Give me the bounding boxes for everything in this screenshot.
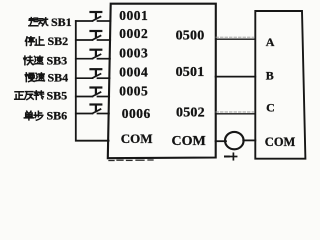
svg-text:0006: 0006	[122, 106, 151, 121]
label SB4 mansu	[25, 70, 68, 84]
svg-text:0500: 0500	[176, 29, 205, 44]
pushbutton SB2	[76, 31, 110, 40]
power supply polarity - +	[225, 153, 237, 159]
PLC box U1	[108, 4, 216, 159]
svg-text:0501: 0501	[176, 65, 205, 80]
svg-text:A: A	[266, 35, 275, 49]
svg-text:SB6: SB6	[47, 109, 68, 123]
load box terminal labels	[265, 35, 296, 149]
svg-text:0005: 0005	[119, 84, 148, 99]
wire output 0500 to A	[216, 36, 254, 38]
label SB6 danbu	[24, 109, 67, 123]
svg-text:0003: 0003	[119, 45, 148, 60]
label SB2 tingzhi	[25, 34, 68, 48]
svg-text:SB1: SB1	[51, 15, 72, 29]
scan smudge under PLC bottom edge	[109, 159, 153, 162]
wire output 0501 to B	[216, 76, 256, 78]
output device box	[255, 11, 305, 159]
svg-text:0004: 0004	[119, 65, 148, 80]
pushbutton SB1	[76, 12, 111, 21]
wire power supply to box COM	[243, 139, 255, 141]
label SB5 zhengfanzhuan	[15, 88, 67, 102]
svg-text:SB5: SB5	[47, 88, 68, 102]
svg-text:SB4: SB4	[48, 70, 69, 84]
label SB3 kuaisu	[24, 54, 67, 68]
pushbutton SB6	[76, 105, 109, 114]
svg-text:0502: 0502	[176, 106, 205, 121]
PLC input terminal labels	[119, 8, 152, 146]
svg-text:COM: COM	[172, 134, 206, 149]
svg-text:0002: 0002	[119, 26, 148, 41]
wire output 0502 to C	[216, 111, 254, 113]
power supply source circle	[225, 132, 244, 149]
label SB1 qidong	[29, 15, 72, 29]
svg-text:SB3: SB3	[47, 54, 68, 68]
svg-text:C: C	[266, 100, 275, 114]
left common bus wire	[76, 21, 109, 141]
PLC output terminal labels	[172, 29, 206, 149]
pushbutton SB3	[76, 50, 110, 59]
svg-text:0001: 0001	[119, 8, 148, 23]
svg-text:B: B	[266, 69, 274, 83]
wire PLC COM to power supply	[216, 140, 226, 142]
pushbutton SB5	[76, 88, 109, 97]
svg-text:COM: COM	[265, 135, 296, 149]
svg-text:COM: COM	[121, 131, 153, 146]
pushbutton SB4	[76, 69, 110, 78]
svg-text:SB2: SB2	[48, 34, 69, 48]
